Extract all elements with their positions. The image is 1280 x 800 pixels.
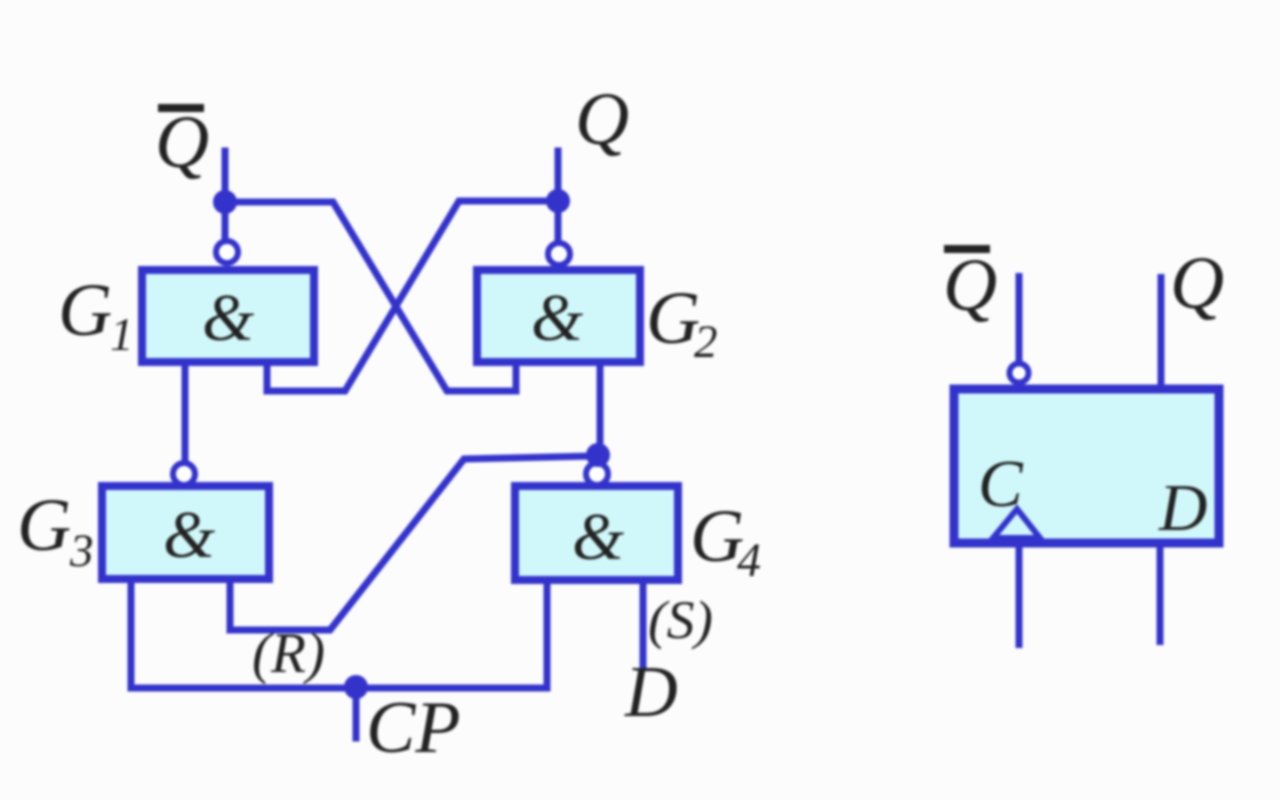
svg-text:D: D: [624, 651, 678, 732]
wire D stub: [640, 579, 647, 666]
svg-text:G: G: [58, 269, 112, 352]
svg-text:2: 2: [694, 316, 718, 368]
wire Q terminal: [555, 151, 562, 242]
inverter bubble G2 output: [548, 243, 570, 265]
overbar Qbar left: [158, 104, 204, 112]
wire G2 output to G4: [597, 363, 604, 462]
svg-text:1: 1: [110, 309, 134, 361]
wire D path G3 to G4 via R: [230, 456, 596, 630]
svg-text:(R): (R): [252, 622, 325, 685]
wire block CP input: [1016, 543, 1023, 648]
inverter bubble block Qbar: [1010, 364, 1029, 383]
junction dot CP: [344, 675, 368, 699]
wire cross-couple Q to G1 input: [267, 201, 558, 391]
svg-text:Q: Q: [943, 244, 997, 327]
wire CP bus: [131, 578, 547, 688]
inverter bubble G4 output: [586, 463, 608, 485]
svg-text:3: 3: [69, 525, 94, 577]
svg-text:G: G: [17, 484, 71, 567]
wire block Q terminal: [1158, 274, 1165, 389]
gate G1 box: [142, 270, 314, 362]
inverter bubble G3 output: [173, 463, 195, 485]
gate G3 box: [102, 486, 269, 579]
wire Qbar terminal: [222, 151, 229, 240]
inverter bubble G1 output: [216, 241, 238, 263]
overbar block Qbar: [944, 245, 990, 253]
wire CP stub: [353, 688, 360, 738]
svg-text:(S): (S): [648, 590, 713, 650]
svg-text:Q: Q: [155, 101, 209, 184]
svg-text:4: 4: [737, 534, 761, 587]
svg-text:C: C: [978, 447, 1024, 521]
flipflop block box: [954, 389, 1219, 543]
svg-text:CP: CP: [366, 687, 461, 769]
svg-text:Q: Q: [575, 78, 629, 161]
svg-text:&: &: [531, 281, 583, 355]
wire G1 output to G3: [182, 363, 189, 462]
wire block Qbar terminal: [1016, 273, 1023, 362]
svg-text:D: D: [1158, 471, 1207, 545]
svg-text:G: G: [646, 277, 700, 360]
junction dot Q: [546, 189, 570, 213]
svg-text:Q: Q: [1170, 242, 1224, 325]
junction dot Qbar: [213, 190, 237, 214]
svg-text:&: &: [572, 500, 624, 574]
wire block D input: [1157, 543, 1164, 645]
junction dot G4 input: [586, 443, 610, 467]
wire cross-couple Qbar to G2 input: [225, 202, 516, 391]
svg-text:&: &: [163, 498, 215, 572]
clock edge triangle: [993, 509, 1040, 538]
gate G2 box: [477, 270, 640, 362]
svg-text:&: &: [202, 281, 254, 355]
gate G4 box: [515, 486, 678, 580]
